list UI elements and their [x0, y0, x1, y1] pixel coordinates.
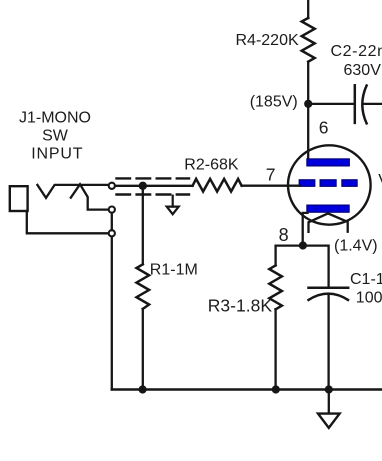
wire R3 bottom to ground rail: [274, 309, 276, 389]
svg-text:SW: SW: [42, 128, 69, 145]
shield top dashed line: [117, 177, 190, 179]
node rail R3 junction dot: [272, 385, 280, 393]
svg-text:630V: 630V: [344, 62, 382, 79]
tube heater filament: [309, 213, 348, 232]
tube grid dashed bar 2: [320, 180, 336, 187]
jack J1 body: [10, 186, 28, 211]
wire C1 bottom to ground rail: [327, 295, 329, 390]
svg-text:J1-MONO: J1-MONO: [19, 110, 91, 127]
svg-text:(1.4V): (1.4V): [334, 237, 378, 254]
svg-text:(185V): (185V): [250, 94, 298, 111]
node plate (185V) junction dot: [304, 100, 312, 108]
capacitor C2 left plate: [354, 85, 357, 123]
wire cathode node to C1: [303, 246, 329, 288]
svg-text:100: 100: [356, 289, 382, 306]
jack tip terminal: [109, 183, 115, 189]
tube cathode bar: [307, 205, 349, 212]
wire R2 to tube grid: [242, 185, 300, 187]
wire B+ feed from top edge to R4: [307, 0, 309, 18]
jack switch contact arm: [71, 184, 109, 209]
jack switch terminal: [109, 207, 115, 213]
wire plate node down into tube plate: [307, 104, 309, 160]
svg-text:INPUT: INPUT: [31, 145, 83, 162]
wire sleeve terminal down to ground rail: [111, 237, 113, 390]
svg-text:C1-10: C1-10: [350, 271, 382, 288]
wire R4 bottom to plate node: [307, 62, 309, 104]
wire switch terminal to sleeve terminal: [111, 213, 113, 230]
wire C2 to right edge: [363, 103, 382, 105]
svg-text:7: 7: [266, 165, 276, 185]
wire R1 bottom to ground rail: [142, 309, 144, 390]
tube grid dashed bar 1: [299, 180, 315, 187]
svg-text:R1-1M: R1-1M: [150, 261, 198, 278]
node rail ground junction dot: [325, 385, 333, 393]
ground symbol: [318, 414, 340, 428]
wire ground stem: [328, 390, 330, 414]
shield bottom dashed line: [117, 193, 190, 195]
resistor R3: [269, 265, 282, 309]
tube plate (anode) bar: [307, 159, 349, 166]
wire plate node to C2: [308, 103, 354, 105]
svg-text:C2-22nF: C2-22nF: [331, 43, 382, 60]
svg-text:8: 8: [279, 225, 289, 245]
wire ground rail: [112, 388, 382, 391]
shield ground stem: [172, 196, 174, 207]
resistor R4: [302, 18, 315, 62]
node cathode junction dot: [299, 241, 307, 249]
svg-text:V1: V1: [378, 172, 382, 189]
jack sleeve contact: [27, 211, 109, 233]
wire cathode node to R3: [276, 246, 303, 266]
capacitor C2 curved plate: [362, 86, 366, 124]
resistor R1: [137, 264, 150, 309]
node input junction dot: [139, 182, 147, 190]
node rail R1 junction dot: [139, 385, 147, 393]
capacitor C1 curved plate: [309, 294, 349, 300]
capacitor C1 top plate: [309, 287, 349, 290]
svg-text:R4-220K: R4-220K: [236, 32, 299, 49]
tube grid dashed bar 3: [342, 180, 357, 187]
svg-text:R3-1.8K: R3-1.8K: [208, 295, 273, 315]
jack sleeve terminal: [109, 230, 115, 236]
svg-text:R2-68K: R2-68K: [184, 157, 239, 174]
shield ground triangle: [167, 207, 179, 215]
wire cathode lead down to cathode node: [303, 213, 308, 246]
resistor R2: [193, 179, 242, 192]
tube V1 envelope: [288, 145, 371, 224]
wire input node down to R1: [142, 186, 144, 264]
wire tip terminal to input node: [115, 185, 193, 187]
jack tip lever with notch: [37, 185, 108, 198]
svg-text:6: 6: [319, 118, 329, 138]
